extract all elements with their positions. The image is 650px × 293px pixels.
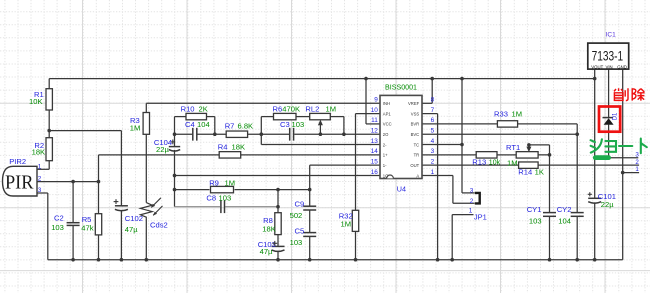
junction at (174.5,175.5): [173, 174, 177, 178]
svg-text:103: 103: [292, 120, 305, 129]
svg-text:11: 11: [371, 117, 378, 124]
svg-text:A: A: [416, 173, 419, 178]
junction at (98.5,259.7): [97, 258, 101, 262]
wire RL2 wiper: [319, 124, 321, 135]
regulator IC1 7133-1 body: [588, 43, 629, 69]
svg-text:18K: 18K: [32, 148, 46, 157]
wire pin1 A to JP1 pin2: [422, 174, 453, 176]
capacitor CY2: [571, 212, 584, 214]
svg-text:U4: U4: [397, 184, 406, 193]
svg-text:1: 1: [431, 169, 435, 176]
wire 1O bus horizontals: [175, 174, 381, 176]
svg-text:VIN: VIN: [606, 64, 613, 69]
svg-text:1: 1: [469, 207, 473, 214]
junction at (278,259.7): [276, 258, 280, 262]
svg-text:104: 104: [197, 120, 210, 129]
junction at (549.5,154.8): [548, 153, 552, 157]
svg-text:3: 3: [38, 187, 42, 194]
wire RT1 wiper net: [529, 144, 550, 146]
capacitor C4: [192, 128, 194, 141]
svg-text:CY2: CY2: [557, 205, 572, 214]
green annotation text ショート: [591, 139, 647, 154]
wire pin6 through R33 to CY2 node: [422, 123, 497, 125]
svg-text:502: 502: [290, 211, 303, 220]
svg-text:13: 13: [371, 138, 379, 145]
green short bar: [593, 155, 611, 160]
svg-text:3: 3: [635, 152, 639, 159]
svg-text:AP1: AP1: [383, 111, 392, 116]
svg-text:104: 104: [558, 217, 571, 226]
junction at (309.7,259.7): [308, 258, 312, 262]
red delete box around D1: [599, 107, 620, 132]
red annotation text 削除: [614, 88, 645, 100]
svg-text:103: 103: [290, 238, 303, 247]
svg-text:103: 103: [219, 193, 232, 202]
svg-text:1K: 1K: [535, 168, 544, 177]
resistor R14: [519, 162, 539, 168]
junction at (432.2,78.6): [430, 77, 434, 81]
svg-text:470K: 470K: [282, 104, 300, 113]
svg-text:5: 5: [431, 128, 435, 135]
wire ground bottom rail: [48, 259, 623, 261]
wire VCC top rail: [49, 78, 595, 80]
junction at (594.7,78.6): [593, 77, 597, 81]
svg-text:RT1: RT1: [506, 143, 520, 152]
svg-text:22µ: 22µ: [156, 145, 169, 154]
resistor R33: [497, 121, 517, 127]
svg-text:VOUT: VOUT: [591, 64, 603, 69]
resistor R13: [476, 152, 497, 158]
svg-text:2O: 2O: [383, 132, 389, 137]
wire JP1 pin1 to ground: [452, 214, 473, 216]
PIR sensor PIR2: [3, 166, 38, 196]
capacitor C101 electrolytic: [588, 197, 601, 199]
junction at (437.6,259.7): [436, 258, 440, 262]
resistor R2: [46, 138, 52, 161]
wire CY2 branch to ground: [576, 124, 578, 212]
svg-text:12: 12: [371, 128, 379, 135]
svg-text:R13: R13: [472, 157, 486, 166]
wire pin15 1- riser to C9/C5: [310, 164, 380, 166]
resistor R8: [275, 213, 281, 235]
wire pin5 net: [422, 133, 577, 135]
svg-text:3: 3: [470, 188, 474, 195]
svg-text:OUT: OUT: [410, 163, 419, 168]
junction at (261.3,134.2): [260, 132, 264, 136]
junction at (174.5,189.6): [173, 188, 177, 192]
svg-text:4: 4: [431, 138, 435, 145]
capacitor C3: [289, 128, 291, 141]
svg-text:3: 3: [431, 148, 435, 155]
wire R6-RL2 series top path: [261, 116, 273, 118]
capacitor C103 electrolytic: [272, 245, 285, 247]
svg-text:GND: GND: [617, 64, 627, 69]
svg-text:Cds2: Cds2: [150, 221, 168, 230]
resistor R7: [226, 131, 247, 137]
wire CY1 branch to ground: [549, 155, 551, 212]
svg-text:14: 14: [371, 148, 379, 155]
potentiometer RT1: [516, 152, 538, 158]
svg-text:C4: C4: [185, 120, 195, 129]
capacitor C102 electrolytic: [115, 205, 128, 207]
junction at (278,189.6): [276, 188, 280, 192]
op-amp IC U4 BISS0001 body: [380, 95, 422, 178]
wire 1+ net to U4 pin14: [99, 154, 381, 156]
svg-text:C8: C8: [206, 193, 216, 202]
resistor R10: [186, 113, 207, 119]
svg-text:2: 2: [431, 158, 435, 165]
junction at (73.1,259.7): [71, 258, 75, 262]
svg-text:R7: R7: [225, 121, 235, 130]
svg-text:C5: C5: [295, 227, 305, 236]
junction at (214.8,134.2): [213, 132, 217, 136]
photoresistor Cds2: [140, 203, 152, 219]
junction at (98.5,181.6): [97, 180, 101, 184]
wire R5 branch / 1+ riser: [98, 182, 100, 214]
svg-text:10K: 10K: [29, 97, 43, 106]
svg-text:9: 9: [374, 97, 378, 104]
svg-text:22µ: 22µ: [601, 200, 614, 209]
svg-text:18K: 18K: [232, 143, 246, 152]
resistor R3: [143, 113, 149, 135]
svg-text:TC: TC: [414, 142, 420, 147]
svg-text:PIR2: PIR2: [9, 157, 26, 166]
wire 7133 VOUT line: [594, 69, 596, 198]
svg-text:10: 10: [371, 107, 379, 114]
svg-text:18K: 18K: [262, 225, 276, 234]
svg-text:C3: C3: [280, 120, 290, 129]
svg-text:1M: 1M: [130, 124, 141, 133]
junction at (622.7,172.6): [621, 171, 625, 175]
svg-text:2-: 2-: [383, 142, 387, 147]
svg-text:10k: 10k: [489, 160, 501, 167]
wire R10 leads: [175, 116, 187, 118]
junction at (577.2,259.7): [575, 258, 579, 262]
svg-text:47µ: 47µ: [260, 247, 273, 256]
wire connector pin3 stub: [595, 157, 639, 159]
wire PIR pin3 to ground: [37, 192, 48, 194]
svg-text:1: 1: [38, 163, 42, 170]
junction at (549.5,259.7): [548, 258, 552, 262]
junction at (594.7,259.7): [593, 258, 597, 262]
svg-text:1M: 1M: [341, 219, 352, 228]
wire pin10 through R32 to ground: [356, 113, 381, 115]
svg-text:D1: D1: [613, 112, 619, 120]
svg-text:JP1: JP1: [474, 213, 487, 222]
wire pin7 VSS to ground: [422, 113, 438, 115]
svg-text:47µ: 47µ: [125, 225, 138, 234]
resistor R6: [274, 113, 297, 119]
junction at (343.9,134.2): [342, 132, 346, 136]
junction at (320.4,134.2): [319, 132, 323, 136]
junction at (49.2,130.6): [47, 129, 51, 133]
capacitor C104 electrolytic: [169, 146, 180, 148]
svg-text:BVR: BVR: [411, 122, 420, 127]
junction at (73.1,181.6): [71, 180, 75, 184]
resistor R32: [352, 210, 358, 231]
junction at (174.5,134.2): [173, 132, 177, 136]
junction at (355.5,259.7): [354, 258, 358, 262]
capacitor C2: [67, 222, 80, 224]
svg-text:R9: R9: [209, 179, 219, 188]
svg-text:R10: R10: [181, 104, 195, 113]
svg-text:1M: 1M: [512, 109, 523, 118]
svg-text:R6: R6: [273, 104, 283, 113]
svg-text:7: 7: [431, 107, 435, 114]
svg-text:BVC: BVC: [411, 132, 420, 137]
capacitor C8: [220, 200, 222, 213]
junction at (528.9,144.9): [527, 143, 531, 147]
wire R2 bottom to PIR pin1: [48, 161, 50, 170]
junction at (577.2,134.2): [575, 132, 579, 136]
svg-text:1: 1: [635, 166, 639, 173]
svg-text:103: 103: [529, 217, 542, 226]
wire 7133 VIN line with D1: [608, 69, 610, 117]
svg-text:VSS: VSS: [411, 111, 420, 116]
svg-text:INH: INH: [383, 101, 390, 106]
resistor R1: [46, 89, 52, 110]
diode D1: [603, 117, 614, 119]
wire 2- input node bus x174.5: [174, 117, 176, 147]
wire 2O feedback / pin13 net: [261, 144, 380, 146]
wire VCC drop to JP1 pin3: [461, 79, 463, 193]
wire R8 branch: [277, 190, 279, 213]
svg-text:VREF: VREF: [408, 101, 420, 106]
wire pin8 VREF to VCC rail: [422, 102, 432, 104]
svg-text:1M: 1M: [225, 179, 236, 188]
svg-text:VCC: VCC: [383, 122, 392, 127]
junction at (462,144.5): [460, 143, 464, 147]
wire R1 leads: [48, 79, 50, 89]
svg-text:1O: 1O: [383, 173, 389, 178]
svg-text:15: 15: [371, 158, 379, 165]
svg-text:7133-1: 7133-1: [592, 48, 624, 64]
resistor R9: [211, 186, 234, 192]
svg-text:2: 2: [38, 176, 42, 183]
resistor R5: [95, 214, 101, 235]
svg-text:CY1: CY1: [527, 205, 542, 214]
svg-text:BISS0001: BISS0001: [385, 85, 417, 92]
wire 7133 GND line: [622, 69, 624, 260]
wire C102 to ground: [120, 210, 122, 260]
wire pin2 OUT through R14 to connector pin2: [422, 164, 519, 166]
svg-text:47k: 47k: [81, 224, 93, 233]
wire pin4 TC stub: [422, 144, 462, 146]
svg-text:8: 8: [431, 97, 435, 104]
svg-text:1M: 1M: [326, 104, 337, 113]
wire C2 to ground: [72, 182, 74, 223]
svg-text:PIR: PIR: [5, 172, 34, 194]
svg-text:C2: C2: [54, 213, 64, 222]
wire VCC drop to pin11: [365, 79, 367, 124]
junction at (366,78.6): [364, 77, 368, 81]
junction at (121.4,259.7): [120, 258, 124, 262]
svg-text:IC1: IC1: [606, 32, 617, 39]
wire R1-R2 junction branch to C102: [49, 130, 121, 132]
svg-text:RL2: RL2: [305, 104, 319, 113]
capacitor C9: [303, 205, 316, 207]
junction at (452.2,259.7): [450, 258, 454, 262]
svg-text:6.8K: 6.8K: [238, 121, 254, 130]
svg-text:C9: C9: [295, 199, 305, 208]
svg-text:1+: 1+: [383, 153, 388, 158]
svg-text:6: 6: [431, 117, 435, 124]
junction at (278,206.7): [276, 205, 280, 209]
svg-text:16: 16: [371, 169, 379, 176]
junction at (462,78.6): [460, 77, 464, 81]
svg-text:R33: R33: [494, 109, 508, 118]
wire main 2- chain y134.3: [175, 133, 193, 135]
resistor R4: [219, 152, 241, 158]
capacitor CY1: [543, 212, 556, 214]
wire PIR pin2 net: [37, 181, 99, 183]
wire R3 to Cds2 to ground: [145, 134, 147, 203]
svg-text:2K: 2K: [199, 104, 208, 113]
wire connector pin1 stub: [623, 172, 639, 174]
svg-text:103: 103: [51, 223, 64, 232]
capacitor C5: [303, 232, 316, 234]
wire pin9/INH net from R3 top to U4: [146, 102, 380, 104]
svg-text:1-: 1-: [383, 163, 387, 168]
svg-text:TR: TR: [414, 153, 420, 158]
jumper JP1: [475, 193, 480, 204]
svg-text:2: 2: [470, 198, 474, 205]
svg-text:R5: R5: [82, 215, 92, 224]
svg-text:R14: R14: [518, 168, 532, 177]
wire pin3 TR through R13/RT1: [422, 154, 476, 156]
svg-text:R4: R4: [218, 143, 228, 152]
potentiometer RL2: [310, 113, 331, 119]
svg-text:1M: 1M: [507, 159, 518, 168]
junction at (146.3,259.7): [145, 258, 149, 262]
svg-text:2: 2: [635, 159, 639, 166]
junction at (309.7,189.6): [308, 188, 312, 192]
